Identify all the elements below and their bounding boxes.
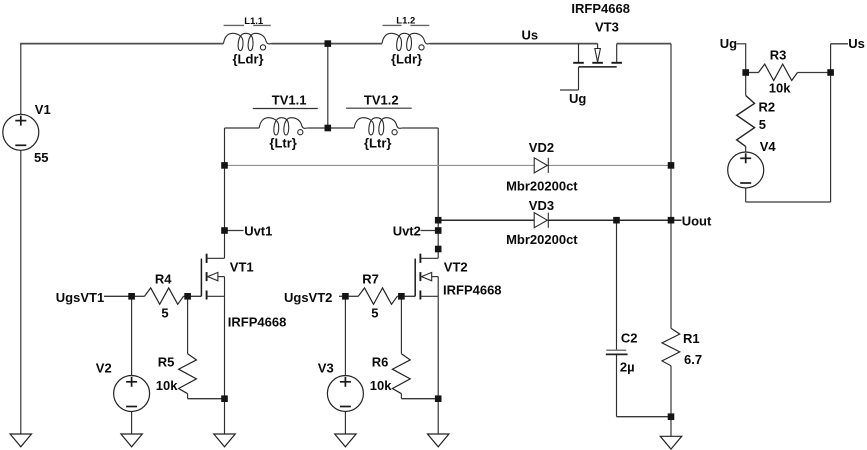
node junction Uout bbox=[668, 217, 675, 224]
wire R6 to source bbox=[401, 398, 438, 400]
svg-text:Mbr20200ct: Mbr20200ct bbox=[506, 232, 578, 247]
wire V3 bottom lead bbox=[344, 411, 346, 434]
transformer winding TV1.1 bbox=[253, 92, 318, 150]
svg-text:IRFP4668: IRFP4668 bbox=[571, 1, 630, 16]
ground below V1 bbox=[10, 434, 31, 447]
diode VD3 Mbr20200ct bbox=[506, 198, 578, 247]
svg-text:Us: Us bbox=[848, 36, 865, 51]
svg-text:{Ldr}: {Ldr} bbox=[391, 52, 422, 67]
wire V4 bottom lead bbox=[745, 188, 747, 202]
inductor L1.2 bbox=[382, 15, 430, 66]
wire VT2 source column bbox=[437, 296, 439, 434]
wire R4 right lead bbox=[184, 295, 202, 297]
svg-text:R1: R1 bbox=[683, 331, 700, 346]
svg-text:V2: V2 bbox=[96, 360, 112, 375]
node junction VT2 drain pin bbox=[435, 246, 442, 253]
wire VD3 anode bbox=[438, 219, 534, 221]
wire VT1 drain column bbox=[224, 128, 226, 258]
ground below VT2 bbox=[428, 434, 449, 447]
svg-text:55: 55 bbox=[34, 150, 48, 165]
svg-text:R3: R3 bbox=[770, 48, 787, 63]
wire R5 bottom lead bbox=[187, 394, 189, 399]
wire R5 to source bbox=[188, 398, 225, 400]
wire TV1.2 left lead bbox=[328, 127, 354, 129]
wire R7 left lead bbox=[345, 295, 358, 297]
wire right circuit bottom bbox=[746, 201, 831, 203]
wire V2 top lead bbox=[131, 296, 133, 375]
wire VT2 drain column bbox=[437, 128, 439, 258]
voltage source V4 bbox=[728, 139, 777, 188]
capacitor C2 bbox=[606, 330, 638, 374]
node junction UgsVT2 bbox=[342, 293, 349, 300]
svg-text:UgsVT1: UgsVT1 bbox=[56, 290, 104, 305]
wire Us stub right circuit bbox=[831, 43, 848, 45]
wire VD3 cathode to Uout bbox=[548, 219, 681, 221]
wire R6 top lead bbox=[400, 296, 402, 353]
svg-text:C2: C2 bbox=[621, 330, 638, 345]
resistor R3 bbox=[759, 48, 798, 96]
wire V1 bottom lead bbox=[20, 150, 22, 434]
wire top rail segment 3 bbox=[430, 43, 598, 45]
wire Ug stub right circuit bbox=[737, 44, 746, 73]
svg-text:VD2: VD2 bbox=[529, 140, 554, 155]
wire TV1.2 right lead bbox=[402, 127, 438, 129]
resistor R6 bbox=[370, 354, 410, 394]
svg-text:L1.2: L1.2 bbox=[396, 15, 415, 26]
svg-text:{Ldr}: {Ldr} bbox=[233, 52, 264, 67]
wire top rail segment 2 bbox=[272, 43, 383, 45]
node junction R7 gate R6 bbox=[398, 293, 405, 300]
inductor L1.1 bbox=[224, 16, 272, 67]
svg-text:2µ: 2µ bbox=[620, 360, 635, 375]
transistor Q VT1 IRFP4668 bbox=[201, 254, 286, 330]
node junction VD2 right bbox=[668, 162, 675, 169]
node junction TV center bbox=[325, 125, 332, 132]
svg-text:VT1: VT1 bbox=[230, 259, 254, 274]
ground below V3 bbox=[335, 434, 356, 447]
svg-text:VT3: VT3 bbox=[595, 20, 619, 35]
transistor Q VT3 IRFP4668 (horizontal) bbox=[560, 1, 630, 90]
svg-text:VT2: VT2 bbox=[444, 259, 468, 274]
wire TV1.1 left lead bbox=[225, 127, 260, 129]
wire R2 bottom lead bbox=[745, 146, 747, 152]
svg-text:10k: 10k bbox=[370, 378, 392, 393]
wire V3 top lead bbox=[344, 296, 346, 375]
svg-text:UgsVT2: UgsVT2 bbox=[284, 290, 332, 305]
voltage source V3 bbox=[318, 360, 364, 411]
svg-text:5: 5 bbox=[759, 117, 766, 132]
resistor R4 bbox=[145, 272, 184, 321]
wire R3 left lead bbox=[746, 72, 759, 74]
node junction VD2 left bbox=[221, 162, 228, 169]
node junction Us R3 bbox=[827, 69, 834, 76]
svg-text:R4: R4 bbox=[155, 272, 172, 287]
node junction top rail bbox=[325, 40, 332, 47]
wire center drop from top rail bbox=[327, 44, 329, 128]
svg-text:5: 5 bbox=[371, 305, 378, 320]
voltage source V2 bbox=[96, 360, 150, 411]
svg-text:TV1.2: TV1.2 bbox=[364, 92, 399, 107]
svg-text:IRFP4668: IRFP4668 bbox=[228, 314, 287, 329]
node junction Ug R3 R2 bbox=[742, 69, 749, 76]
wire R4 left lead bbox=[132, 295, 145, 297]
svg-text:10k: 10k bbox=[769, 81, 791, 96]
svg-text:{Ltr}: {Ltr} bbox=[269, 136, 296, 151]
svg-text:R7: R7 bbox=[362, 272, 379, 287]
svg-text:10k: 10k bbox=[156, 378, 178, 393]
transistor Q VT2 IRFP4668 bbox=[415, 254, 501, 300]
resistor R5 bbox=[156, 354, 197, 394]
svg-text:R5: R5 bbox=[158, 354, 175, 369]
svg-text:TV1.1: TV1.1 bbox=[272, 92, 307, 107]
node junction VT2 source R6 bbox=[435, 395, 442, 402]
node junction Uvt1 bbox=[221, 227, 228, 234]
wire R6 bottom lead bbox=[400, 394, 402, 399]
wire UgsVT1 lead bbox=[104, 295, 132, 297]
wire V2 bottom lead bbox=[131, 411, 133, 434]
svg-text:{Ltr}: {Ltr} bbox=[364, 136, 391, 151]
svg-text:Mbr20200ct: Mbr20200ct bbox=[506, 178, 578, 193]
node junction VD3 left bbox=[435, 217, 442, 224]
wire right circuit right side bbox=[830, 44, 832, 202]
svg-text:Uvt2: Uvt2 bbox=[393, 223, 421, 238]
wire C2 top lead bbox=[616, 220, 618, 350]
transformer winding TV1.2 bbox=[346, 92, 412, 150]
wire right vertical upper bbox=[670, 44, 672, 221]
wire R7 right lead bbox=[397, 295, 415, 297]
node junction VT1 source R5 bbox=[221, 395, 228, 402]
node junction C2 top bbox=[613, 217, 620, 224]
wire VD2 anode bbox=[225, 164, 535, 166]
node Uvt2 stub bbox=[421, 230, 439, 232]
wire VT1 source column bbox=[224, 296, 226, 434]
ground below VT1 bbox=[214, 434, 235, 447]
wire C2 to R1 bottom bbox=[617, 416, 672, 418]
wire TV1.1 right lead bbox=[307, 127, 328, 129]
node Uvt1 stub bbox=[225, 230, 244, 232]
wire VD2 cathode bbox=[548, 164, 671, 166]
wire top rail segment 4 bbox=[617, 43, 671, 45]
wire V1 top lead bbox=[20, 44, 22, 115]
voltage source V1 bbox=[3, 102, 51, 165]
svg-text:5: 5 bbox=[161, 305, 168, 320]
svg-text:Uout: Uout bbox=[682, 213, 712, 228]
svg-text:VD3: VD3 bbox=[529, 198, 554, 213]
wire right vertical R1 top lead bbox=[670, 220, 672, 328]
svg-text:IRFP4668: IRFP4668 bbox=[443, 282, 502, 297]
wire top rail segment 1 bbox=[20, 43, 223, 45]
resistor R7 bbox=[358, 272, 397, 321]
svg-text:V3: V3 bbox=[318, 360, 334, 375]
svg-text:R2: R2 bbox=[759, 99, 776, 114]
svg-text:L1.1: L1.1 bbox=[244, 16, 264, 27]
node junction UgsVT1 bbox=[128, 293, 135, 300]
resistor R2 bbox=[737, 96, 775, 147]
wire UgsVT2 lead bbox=[339, 295, 345, 297]
wire C2 bottom lead bbox=[616, 355, 618, 417]
wire R2 top lead bbox=[745, 73, 747, 96]
wire right vertical R1 bottom lead bbox=[670, 366, 672, 437]
svg-text:V1: V1 bbox=[35, 102, 51, 117]
node junction R4 gate R5 bbox=[184, 293, 191, 300]
svg-text:Ug: Ug bbox=[569, 91, 586, 106]
resistor R1 bbox=[662, 328, 702, 367]
node junction Uvt2 bbox=[435, 227, 442, 234]
node junction C2 R1 bottom bbox=[668, 413, 675, 420]
svg-text:Us: Us bbox=[522, 27, 539, 42]
wire R3 right lead bbox=[798, 72, 831, 74]
svg-text:Ug: Ug bbox=[720, 36, 737, 51]
svg-text:V4: V4 bbox=[760, 139, 777, 154]
svg-text:Uvt1: Uvt1 bbox=[244, 223, 272, 238]
diode VD2 Mbr20200ct bbox=[506, 140, 578, 194]
svg-text:6.7: 6.7 bbox=[684, 352, 702, 367]
svg-text:R6: R6 bbox=[372, 354, 389, 369]
ground below V2 bbox=[121, 434, 142, 447]
wire R5 top lead bbox=[187, 296, 189, 353]
ground below R1 bbox=[660, 436, 681, 449]
